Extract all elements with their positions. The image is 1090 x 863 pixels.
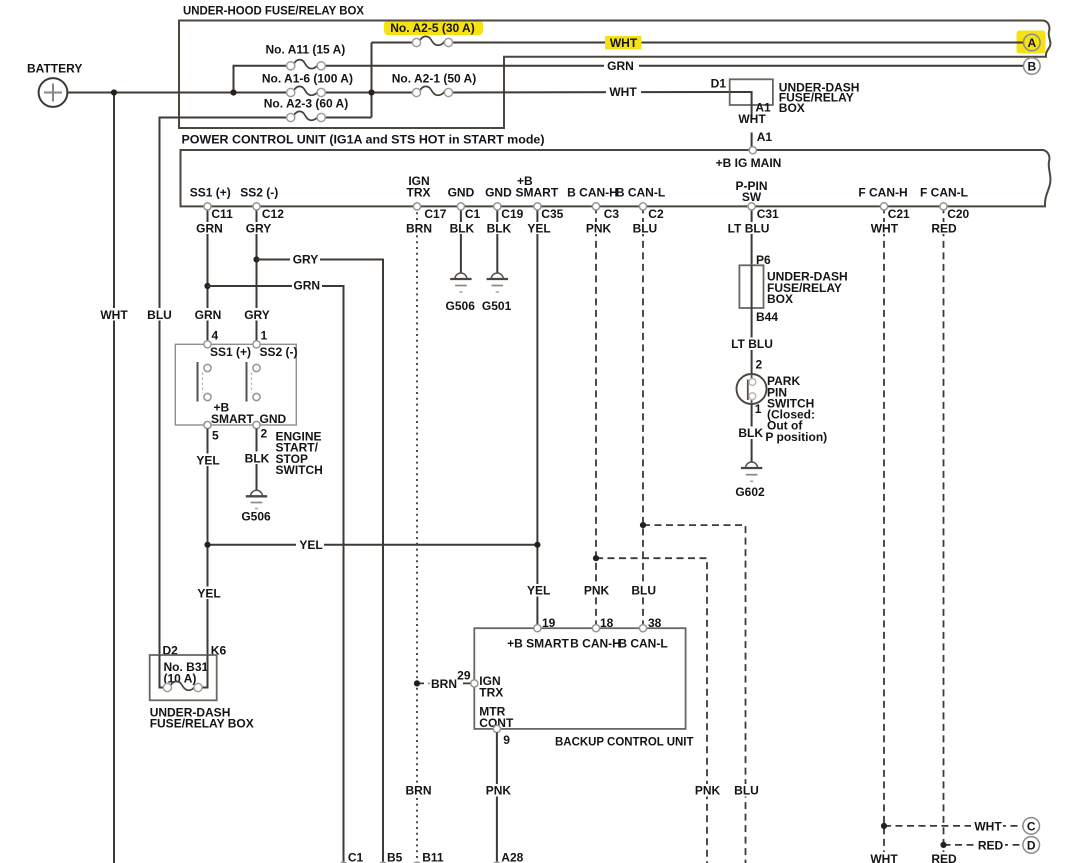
pin 9 backup <box>493 725 510 747</box>
wire A2-3 row to BLU drop <box>160 118 372 688</box>
label YEL above K6 <box>195 586 222 600</box>
label BRN bottom <box>404 784 433 798</box>
label WHT on battery drop <box>99 308 129 322</box>
pin C31 <box>748 203 779 221</box>
pin label IGN TRX <box>407 174 431 199</box>
svg-text:PNK: PNK <box>486 784 512 798</box>
label +B SMART B CAN-H B CAN-L inside backup <box>507 637 668 651</box>
svg-text:B5: B5 <box>387 851 403 863</box>
svg-text:WHT: WHT <box>870 852 898 863</box>
pin C20 <box>940 203 970 221</box>
wire PNK C3 dashed down to pin 18 <box>595 206 597 624</box>
fuse No. A11 (15 A) <box>265 42 345 70</box>
label RED bottom right <box>929 852 959 863</box>
label GRY on branch <box>290 253 320 267</box>
junction PNK branch <box>593 555 599 561</box>
svg-text:5: 5 <box>212 429 219 443</box>
node A circle <box>1024 34 1041 51</box>
under-hood fuse/relay box <box>179 4 1051 129</box>
svg-text:BRN: BRN <box>406 221 432 235</box>
pin A1 on PCU top edge <box>749 147 756 154</box>
svg-text:TRX: TRX <box>407 186 431 200</box>
wire color label YEL (C35) <box>525 221 552 235</box>
label GRY above switch pin 1 <box>243 308 272 322</box>
svg-text:SMART: SMART <box>516 186 559 200</box>
svg-text:B44: B44 <box>756 310 778 324</box>
wire BLK switch pin 2 to G506 <box>256 429 258 491</box>
svg-text:GND: GND <box>485 186 512 200</box>
svg-text:GRN: GRN <box>607 59 634 73</box>
label YEL below pin 5 <box>194 453 221 467</box>
svg-text:RED: RED <box>931 852 957 863</box>
svg-text:F CAN-H: F CAN-H <box>858 186 907 200</box>
pin label +B SMART <box>516 174 559 199</box>
svg-text:GRN: GRN <box>293 279 320 293</box>
wire GRN fuse A11 to node B <box>325 65 1023 67</box>
svg-text:C31: C31 <box>757 207 779 221</box>
svg-text:C2: C2 <box>648 207 664 221</box>
ground G506 (switch) <box>241 490 271 523</box>
svg-text:No. A11 (15 A): No. A11 (15 A) <box>265 42 345 56</box>
svg-text:SS1 (+): SS1 (+) <box>190 186 231 200</box>
svg-text:PNK: PNK <box>584 584 610 598</box>
svg-text:+B SMART: +B SMART <box>507 637 569 651</box>
wire BRN C17 dotted down page <box>416 206 418 863</box>
wire color label BRN (C17) <box>404 221 432 235</box>
svg-text:A28: A28 <box>501 851 523 863</box>
svg-text:GRY: GRY <box>293 253 319 267</box>
wire YEL into K6 fuse <box>202 655 207 688</box>
svg-text:TRX: TRX <box>479 686 503 700</box>
svg-text:B CAN-H: B CAN-H <box>567 186 618 200</box>
wire YEL C35 down to pin 19 <box>536 206 538 624</box>
svg-text:RED: RED <box>978 838 1004 852</box>
label WHT on C row <box>971 819 1003 833</box>
wire A1 from D1 to PCU <box>738 100 772 147</box>
pin C19 <box>494 203 524 221</box>
junction YEL left <box>204 542 210 548</box>
switch pin 5 <box>204 421 219 442</box>
svg-text:POWER CONTROL UNIT (IG1A and S: POWER CONTROL UNIT (IG1A and STS HOT in … <box>182 132 545 146</box>
svg-text:C11: C11 <box>211 207 233 221</box>
pin C1 bottom <box>339 851 363 863</box>
svg-text:LT BLU: LT BLU <box>728 221 770 235</box>
label YEL above pin 19 <box>524 584 551 598</box>
switch pin 2 <box>253 421 268 440</box>
pin 18 backup <box>592 616 613 632</box>
junction battery/riser <box>368 89 374 95</box>
power control unit box <box>181 132 1051 206</box>
svg-text:BOX: BOX <box>767 292 793 306</box>
svg-text:2: 2 <box>756 357 763 371</box>
svg-text:B CAN-L: B CAN-L <box>616 186 665 200</box>
svg-text:C1: C1 <box>348 851 364 863</box>
label MTR CONT inside backup <box>479 704 514 730</box>
highlight No. A2-5 label <box>384 21 483 36</box>
junction WHT/C <box>881 823 887 829</box>
wire YEL switch pin 5 down <box>207 429 209 655</box>
wire BLK C19 to G501 <box>496 206 498 273</box>
junction GRY branch <box>253 256 259 262</box>
under-dash fuse/relay box D1 <box>711 77 860 115</box>
wire BLU into D2 fuse <box>160 655 164 688</box>
label PNK above pin 18 <box>582 584 611 598</box>
wire BLU C2 dashed down to pin 38 <box>642 206 644 624</box>
wire color label BLK (C1) <box>448 221 475 235</box>
svg-text:C1: C1 <box>465 207 481 221</box>
pin B5 bottom <box>379 851 403 863</box>
svg-text:BACKUP CONTROL UNIT: BACKUP CONTROL UNIT <box>555 734 694 748</box>
svg-text:29: 29 <box>457 669 471 683</box>
svg-text:GND: GND <box>448 186 475 200</box>
svg-text:19: 19 <box>542 616 556 630</box>
svg-text:A: A <box>1027 36 1036 50</box>
svg-text:D1: D1 <box>711 77 727 91</box>
wire PNK pin 9 down to A28 <box>496 733 498 863</box>
svg-text:YEL: YEL <box>527 584 550 598</box>
svg-text:D: D <box>1027 838 1036 852</box>
svg-text:38: 38 <box>648 616 662 630</box>
wire branch to fuse A11 <box>234 66 287 93</box>
ground G506 (PCU C1) <box>446 273 476 313</box>
svg-text:GRY: GRY <box>246 221 272 235</box>
label UNDER-DASH FUSE/RELAY BOX (B31) <box>150 706 254 731</box>
label WHT highlighted on A2-5 row <box>605 36 642 50</box>
svg-text:No. A2-3 (60 A): No. A2-3 (60 A) <box>264 96 348 110</box>
junction battery/A11 branch <box>230 89 236 95</box>
svg-text:WHT: WHT <box>974 819 1002 833</box>
label PARK PIN SWITCH (Closed: Out of P position) <box>765 374 827 444</box>
fuse No. A2-1 (50 A) <box>392 71 476 96</box>
svg-text:SMART: SMART <box>211 412 254 426</box>
label PNK bottom (dashed) <box>693 784 722 798</box>
svg-text:BOX: BOX <box>779 101 805 115</box>
ground G501 (PCU C19) <box>482 273 512 313</box>
svg-text:WHT: WHT <box>610 36 638 50</box>
svg-text:No. A2-1 (50 A): No. A2-1 (50 A) <box>392 71 476 85</box>
svg-text:C19: C19 <box>501 207 523 221</box>
label BLK <box>737 426 764 440</box>
wire color label WHT (C21) <box>870 221 899 235</box>
wire LT BLU B44 to park pin switch <box>751 308 753 375</box>
svg-text:PNK: PNK <box>695 784 721 798</box>
svg-text:GRN: GRN <box>196 221 223 235</box>
svg-text:No. A1-6 (100 A): No. A1-6 (100 A) <box>262 71 353 85</box>
wire WHT C21 dashed down <box>883 206 885 852</box>
ground G602 <box>735 462 765 499</box>
svg-text:B CAN-L: B CAN-L <box>618 637 667 651</box>
svg-text:SS1 (+): SS1 (+) <box>210 345 251 359</box>
wire WHT from fuse A2-1 to D1 <box>452 91 729 94</box>
label RED on D row <box>975 838 1005 852</box>
node C circle <box>1023 818 1040 835</box>
label BLU bottom (dashed) <box>733 784 760 798</box>
wire riser to A2-5 and A2-3 <box>371 43 373 118</box>
svg-text:UNDER-HOOD FUSE/RELAY BOX: UNDER-HOOD FUSE/RELAY BOX <box>183 4 364 18</box>
pin C1 <box>457 203 480 221</box>
svg-text:SS2 (-): SS2 (-) <box>260 345 298 359</box>
label BRN on branch <box>430 677 459 691</box>
svg-text:YEL: YEL <box>196 453 219 467</box>
svg-text:1: 1 <box>755 402 762 416</box>
svg-text:No. A2-5 (30 A): No. A2-5 (30 A) <box>390 21 474 35</box>
svg-text:SWITCH: SWITCH <box>276 463 323 477</box>
node B circle <box>1024 58 1041 75</box>
svg-text:BLK: BLK <box>450 221 475 235</box>
svg-text:G506: G506 <box>241 510 271 524</box>
pin B11 bottom <box>413 851 444 863</box>
label BLU above pin 38 <box>630 584 657 598</box>
wire YEL bus row <box>208 544 538 546</box>
wire BLK C1 to G506 <box>460 206 462 273</box>
svg-text:C12: C12 <box>262 207 284 221</box>
under-dash fuse/relay box P6/B44 <box>739 265 847 308</box>
wire color label GRY (C12) <box>244 221 272 235</box>
svg-text:BRN: BRN <box>431 677 457 691</box>
SS2 contact <box>247 362 261 402</box>
wire GRN branch to C1 drop <box>208 286 344 863</box>
pin A28 bottom <box>493 851 524 863</box>
svg-text:FUSE/RELAY BOX: FUSE/RELAY BOX <box>150 717 254 731</box>
svg-text:B: B <box>1027 60 1036 74</box>
backup control unit box <box>474 628 694 748</box>
label GRN above switch pin 4 <box>193 308 223 322</box>
label YEL on bus row <box>296 538 324 552</box>
park pin switch P <box>737 374 767 405</box>
label WHT bottom right <box>868 852 900 863</box>
svg-text:18: 18 <box>600 616 614 630</box>
svg-text:C35: C35 <box>541 207 563 221</box>
pin C12 <box>253 203 284 221</box>
svg-text:C17: C17 <box>424 207 446 221</box>
pin 29 backup <box>457 669 478 687</box>
svg-text:C3: C3 <box>604 207 620 221</box>
svg-text:BLK: BLK <box>245 451 270 465</box>
wire color label PNK (C3) <box>584 221 612 235</box>
svg-text:G602: G602 <box>735 485 765 499</box>
wire WHT battery down <box>113 93 115 863</box>
svg-text:GRN: GRN <box>195 308 222 322</box>
svg-text:WHT: WHT <box>738 112 766 126</box>
wire GRY branch to B5 drop <box>257 260 384 863</box>
highlight node A <box>1017 31 1046 54</box>
label GRN on A11 row <box>604 59 639 73</box>
svg-text:B CAN-H: B CAN-H <box>570 637 621 651</box>
svg-text:YEL: YEL <box>527 221 550 235</box>
label PNK bottom (A28) <box>484 784 513 798</box>
svg-text:P position): P position) <box>765 430 827 444</box>
svg-text:BLK: BLK <box>487 221 512 235</box>
pin label P-PIN SW <box>735 179 767 204</box>
label BLK below pin 2 <box>243 451 270 465</box>
svg-text:B11: B11 <box>422 851 444 863</box>
svg-text:LT BLU: LT BLU <box>731 337 773 351</box>
label WHT on A2-1 row <box>606 85 641 99</box>
svg-text:BLU: BLU <box>147 308 172 322</box>
svg-text:C: C <box>1027 819 1036 833</box>
svg-text:C20: C20 <box>947 207 969 221</box>
svg-text:9: 9 <box>503 733 510 747</box>
wire A2-5 row <box>372 42 1024 44</box>
svg-text:SS2 (-): SS2 (-) <box>240 186 278 200</box>
junction RED/D <box>940 842 946 848</box>
svg-text:4: 4 <box>212 329 219 343</box>
wire BRN dashed branch to pin 29 <box>417 682 471 684</box>
wire RED dashed to node D <box>944 844 1023 846</box>
wire color label RED (C20) <box>930 221 958 235</box>
pin C2 <box>639 203 664 221</box>
junction YEL right <box>534 542 540 548</box>
wire GRY C12 to switch pin 1 <box>256 206 258 341</box>
junction GRN branch <box>204 283 210 289</box>
svg-text:BLU: BLU <box>631 584 656 598</box>
label GRN on branch <box>292 279 322 293</box>
svg-text:WHT: WHT <box>871 221 899 235</box>
fuse No. A2-3 (60 A) <box>264 96 348 121</box>
junction BLU branch <box>640 522 646 528</box>
wire color label GRN (C11) <box>194 221 223 235</box>
battery <box>27 61 82 106</box>
SS1 contact <box>198 362 212 402</box>
svg-text:G506: G506 <box>446 299 476 313</box>
wire color label BLK (C19) <box>485 221 512 235</box>
label IGN TRX inside backup <box>479 674 503 700</box>
label +B SMART inside switch <box>211 401 254 426</box>
svg-text:BLU: BLU <box>734 784 759 798</box>
svg-text:BLU: BLU <box>633 221 658 235</box>
pin 19 backup <box>534 616 556 632</box>
pin C21 <box>880 203 910 221</box>
junction BRN branch <box>414 680 420 686</box>
svg-text:WHT: WHT <box>609 85 637 99</box>
fuse No. A2-5 (30 A) <box>390 21 474 47</box>
svg-text:BATTERY: BATTERY <box>27 61 82 75</box>
svg-text:A1: A1 <box>757 130 773 144</box>
fuse No. B31 (10 A) <box>163 681 202 691</box>
svg-text:PNK: PNK <box>586 221 612 235</box>
wire LT BLU C31 to P6 <box>751 206 753 265</box>
pin C11 <box>204 203 233 221</box>
wire battery feed <box>67 92 412 94</box>
pin C17 <box>413 203 446 221</box>
svg-text:+B IG MAIN: +B IG MAIN <box>716 156 782 170</box>
node D circle <box>1023 837 1040 854</box>
label ENGINE START/STOP SWITCH <box>276 430 323 477</box>
switch pin 1 <box>253 329 268 348</box>
svg-text:2: 2 <box>261 427 268 441</box>
wire PNK dashed branch <box>596 558 707 863</box>
wire RED C20 dashed down <box>943 206 945 852</box>
pin 38 backup <box>639 616 661 632</box>
under-dash fuse/relay box B31 <box>150 655 217 700</box>
svg-text:F CAN-L: F CAN-L <box>920 186 968 200</box>
switch pin 4 <box>204 329 219 348</box>
wire WHT dashed to node C <box>884 825 1023 827</box>
fuse No. A1-6 (100 A) <box>262 71 353 96</box>
svg-text:GRY: GRY <box>244 308 270 322</box>
wire BLU dashed branch to C3 net <box>643 525 746 863</box>
svg-text:RED: RED <box>931 221 957 235</box>
wire color label LT BLU (C31) <box>727 221 771 235</box>
svg-text:BLK: BLK <box>738 426 763 440</box>
svg-text:1: 1 <box>261 329 268 343</box>
wire BLK park pin switch to G602 <box>751 404 753 462</box>
wire color label BLU (C2) <box>631 221 658 235</box>
svg-text:YEL: YEL <box>299 538 322 552</box>
svg-text:WHT: WHT <box>100 308 128 322</box>
pin C35 <box>534 203 564 221</box>
label BLU on A2-3 drop <box>146 308 173 322</box>
svg-text:G501: G501 <box>482 299 512 313</box>
pin C3 <box>592 203 619 221</box>
engine start/stop switch box <box>175 344 296 425</box>
wire GRN C11 to switch pin 4 <box>207 206 209 341</box>
label LT BLU <box>729 337 774 351</box>
svg-text:C21: C21 <box>888 207 910 221</box>
svg-text:YEL: YEL <box>197 586 220 600</box>
svg-text:BRN: BRN <box>406 784 432 798</box>
junction battery/WHT drop <box>111 89 117 95</box>
svg-text:GND: GND <box>260 412 287 426</box>
